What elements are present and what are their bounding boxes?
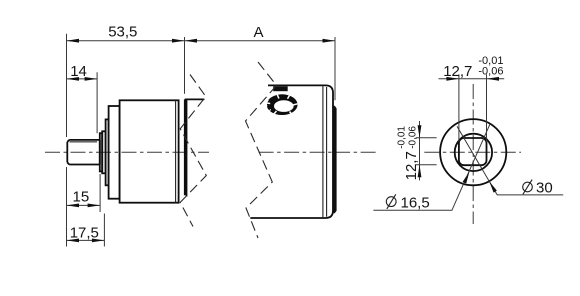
front view centerline horizontal bbox=[424, 151, 521, 153]
connector ring bbox=[266, 94, 297, 119]
svg-text:12,7: 12,7 bbox=[403, 151, 420, 180]
rear body outline bbox=[250, 85, 333, 218]
dimension 12,7 top bbox=[439, 55, 505, 142]
inner circle d16,5 bbox=[455, 134, 492, 171]
outer circle d30 bbox=[440, 119, 506, 185]
body bbox=[120, 100, 179, 202]
dimension 15 bbox=[67, 174, 101, 212]
rear body piece centerline bbox=[259, 151, 378, 153]
svg-text:16,5: 16,5 bbox=[401, 194, 430, 211]
diameter symbol 30 bbox=[523, 182, 533, 192]
rear cap bar bbox=[332, 106, 336, 213]
svg-text:14: 14 bbox=[70, 63, 87, 80]
leader d30 bbox=[457, 126, 563, 196]
shaft bbox=[67, 140, 100, 165]
connector slits bbox=[267, 94, 298, 115]
front view centerline vertical bbox=[472, 84, 474, 224]
svg-text:A: A bbox=[254, 24, 264, 41]
body seam line bbox=[175, 100, 177, 202]
rear body seam lines bbox=[323, 86, 327, 217]
svg-text:15: 15 bbox=[73, 188, 90, 205]
dimension 53,5 bbox=[67, 24, 185, 247]
leader d16,5 bbox=[373, 124, 490, 211]
svg-text:17,5: 17,5 bbox=[70, 224, 99, 241]
break zigzag rear piece bbox=[246, 62, 277, 238]
dimension 14 bbox=[67, 63, 98, 133]
shaft square with flats bbox=[459, 138, 487, 165]
svg-text:-0,01: -0,01 bbox=[396, 126, 407, 149]
break zigzag left view bbox=[180, 75, 206, 227]
broken body continuation bbox=[185, 99, 205, 196]
svg-text:53,5: 53,5 bbox=[108, 24, 137, 41]
dimension 12,7 left bbox=[396, 121, 436, 180]
diameter symbol 16,5 bbox=[386, 197, 396, 207]
svg-text:30: 30 bbox=[536, 180, 553, 197]
svg-text:-0,06: -0,06 bbox=[478, 66, 503, 78]
dimension A bbox=[185, 24, 336, 100]
mounting flange bbox=[109, 106, 120, 199]
side view centerline bbox=[45, 151, 209, 153]
connector key mark bbox=[273, 86, 288, 91]
shaft collar disc A bbox=[100, 133, 102, 171]
shaft collar disc B bbox=[102, 131, 105, 173]
dimension 17,5 bbox=[67, 214, 105, 247]
svg-text:-0,06: -0,06 bbox=[408, 126, 419, 149]
pilot flange bbox=[106, 119, 109, 185]
svg-text:12,7: 12,7 bbox=[443, 63, 472, 80]
